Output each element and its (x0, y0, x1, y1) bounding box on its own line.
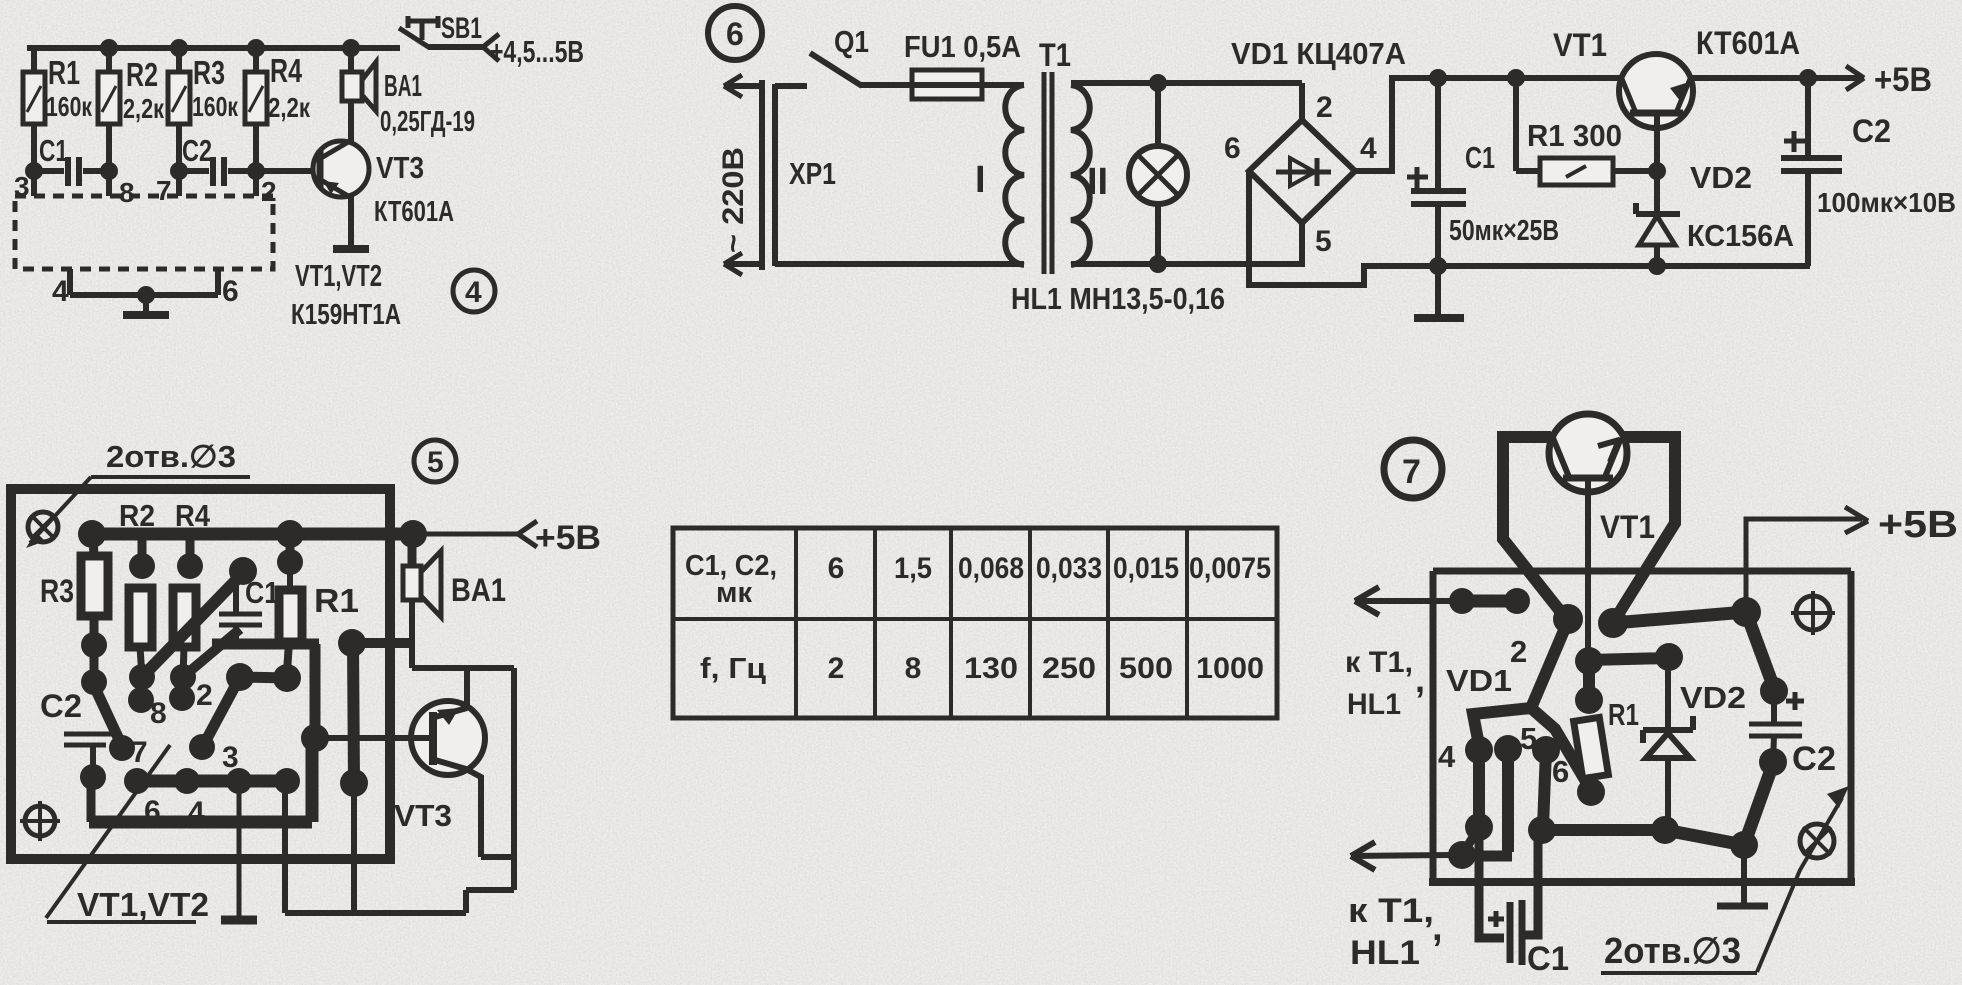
svg-text:+5В: +5В (535, 519, 601, 557)
svg-text:,: , (1415, 659, 1425, 700)
wire R1 branch drop (1507, 69, 1525, 171)
wire secondary top rail (1071, 80, 1302, 86)
resistor R3 outline (40, 534, 108, 616)
wire VT3 collector to speaker (348, 99, 354, 143)
svg-text:~ 220В: ~ 220В (717, 147, 750, 253)
trace VD1 Y (1473, 621, 1591, 790)
svg-text:4: 4 (465, 276, 482, 309)
svg-text:7: 7 (1402, 453, 1421, 491)
svg-text:VD2: VD2 (1680, 680, 1746, 715)
trace pad4 down (1448, 750, 1493, 869)
wire emitter bottom link (481, 854, 514, 860)
svg-text:6: 6 (1552, 754, 1569, 789)
trace under C1 (212, 639, 319, 650)
pad R2 top (129, 534, 155, 579)
arrow +5V fig5 (413, 519, 601, 557)
resistor R4 (245, 46, 311, 124)
wire VT3 emitter down (348, 195, 354, 247)
svg-text:КС156А: КС156А (1687, 218, 1794, 253)
node junction to ground (137, 286, 155, 304)
label 2 holes d3 (26, 439, 250, 548)
label k T1 HL1 bottom (1348, 892, 1443, 972)
ground fig4 (123, 311, 169, 319)
svg-text:HL1: HL1 (1350, 934, 1420, 972)
capacitor C1 (34, 133, 109, 186)
svg-text:50мк×25В: 50мк×25В (1449, 215, 1559, 247)
trace C1 left hookup (1479, 827, 1504, 938)
node dots top rail (100, 39, 360, 57)
trace base to VD2 (1589, 643, 1683, 671)
wire SB1 to supply arrow (428, 44, 483, 50)
transistor VT3 (313, 141, 454, 228)
node 8 (100, 162, 135, 208)
resistor R1 outline (277, 534, 359, 642)
svg-text:f, Гц: f, Гц (700, 653, 766, 685)
wire VT1 case right (1614, 437, 1675, 621)
svg-text:к Т1,: к Т1, (1348, 892, 1434, 930)
svg-text:250: 250 (1042, 652, 1096, 685)
svg-text:VT1,VT2: VT1,VT2 (77, 886, 209, 923)
wire VT3 collector up (464, 668, 470, 710)
wire bridge pin2 up (1299, 83, 1305, 122)
wire VT3 emitter down (466, 769, 481, 857)
svg-text:4: 4 (52, 275, 69, 308)
svg-text:VD2: VD2 (1690, 160, 1752, 195)
svg-text:,: , (1432, 907, 1443, 949)
resistor R1 300 (1516, 118, 1650, 185)
table row 2 (700, 652, 1264, 685)
svg-text:C1: C1 (39, 133, 68, 168)
svg-text:К159НТ1А: К159НТ1А (291, 299, 401, 331)
wire R4 bottom lead (253, 124, 259, 196)
mounting hole top-left (28, 512, 58, 542)
svg-text:R1: R1 (48, 54, 80, 91)
wire BA1 to collector top (412, 665, 514, 671)
trace bottom row (124, 768, 300, 829)
svg-text:BA1: BA1 (451, 572, 506, 608)
svg-text:R4: R4 (175, 498, 211, 533)
svg-text:2: 2 (1316, 91, 1333, 124)
svg-text:7: 7 (156, 175, 172, 206)
ground fig6 (1414, 266, 1464, 318)
svg-text:II: II (1087, 161, 1108, 203)
svg-text:5: 5 (427, 446, 444, 479)
mounting hole bottom-right (1800, 824, 1834, 858)
svg-text:КТ601А: КТ601А (1696, 25, 1800, 61)
node 3 (14, 162, 43, 202)
svg-text:R2: R2 (119, 498, 155, 533)
wire VT1 base lead (1585, 478, 1591, 655)
wire bridge pin4 to top rail (1353, 78, 1622, 171)
trace R1 bottom link (226, 642, 301, 692)
svg-text:0,015: 0,015 (1113, 552, 1179, 585)
wire bridge pin5 down (1299, 221, 1305, 267)
switch Q1 (810, 24, 869, 86)
node supply input arrow +4,5...5B (483, 34, 584, 69)
svg-text:КТ601А: КТ601А (374, 196, 454, 228)
arrow output top-left (1355, 587, 1462, 615)
svg-text:FU1 0,5A: FU1 0,5A (904, 29, 1021, 64)
wire outer loop bottom (285, 910, 466, 916)
svg-text:160к: 160к (46, 91, 93, 122)
transformer T1 (975, 37, 1108, 274)
svg-text:0,068: 0,068 (958, 552, 1024, 585)
svg-text:8: 8 (119, 177, 135, 208)
pin 4 lead (52, 269, 70, 308)
resistor R2 (98, 46, 165, 124)
svg-text:С2: С2 (1792, 740, 1836, 778)
figure number 7 (1384, 440, 1442, 498)
svg-text:VD1 КЦ407А: VD1 КЦ407А (1231, 36, 1406, 71)
mounting hole top-right (1791, 591, 1835, 635)
svg-text:2: 2 (828, 652, 845, 685)
wire pins 4-6 join (70, 292, 218, 298)
table row 1 (685, 550, 1271, 609)
zener VD2 KS156A (1636, 160, 1794, 266)
resistor R3 (168, 46, 239, 124)
plug XP1 (762, 80, 836, 270)
ground fig7 (1717, 845, 1768, 906)
wire R2 bottom lead (106, 124, 112, 196)
svg-text:6: 6 (828, 552, 845, 585)
pad chain node 2 (169, 647, 213, 712)
capacitor C1 fig7 (1488, 900, 1569, 978)
svg-text:2отв.∅3: 2отв.∅3 (1604, 930, 1741, 971)
wire VT3 base (317, 735, 433, 741)
node 2 (247, 162, 277, 207)
svg-text:T1: T1 (1039, 37, 1071, 73)
wire XP1 to switch (775, 83, 807, 89)
svg-text:R1 300: R1 300 (1527, 118, 1622, 153)
svg-text:6: 6 (222, 275, 239, 308)
FIG6 (708, 6, 1956, 318)
label VT1,VT2 with leader (46, 745, 209, 923)
figure number 5 (414, 440, 456, 482)
arrow mains top (724, 75, 762, 97)
svg-text:C2: C2 (182, 133, 212, 168)
pads on top rail (78, 520, 427, 548)
arrow +5V output (1846, 61, 1932, 99)
pads below R3 (81, 616, 107, 695)
capacitor C2 (40, 688, 114, 790)
svg-text:+5В: +5В (1874, 61, 1932, 99)
wire +5V fig7 (1746, 504, 1958, 612)
trace diagonal D4 node 3 (189, 677, 240, 774)
svg-text:7: 7 (131, 736, 148, 769)
svg-text:4: 4 (1360, 132, 1377, 165)
svg-text:С2: С2 (40, 688, 82, 724)
FIG7 (1345, 414, 1958, 978)
trace corner down to base pad (310, 644, 321, 740)
trace pad6 down (1543, 750, 1546, 827)
diode VD2 fig7 (1643, 657, 1746, 822)
svg-text:2: 2 (261, 176, 277, 207)
svg-text:2: 2 (1510, 634, 1527, 669)
pad 4 (1438, 736, 1493, 774)
wire top rail right of VT1 (1690, 75, 1864, 81)
svg-text:8: 8 (150, 697, 167, 730)
resistor R2 outline (129, 588, 152, 647)
trace pad5 to hub (1462, 749, 1512, 856)
svg-text:2отв.∅3: 2отв.∅3 (106, 439, 236, 474)
wire top supply rail (27, 45, 400, 51)
trace diagonal D2 node 7 (96, 690, 148, 769)
svg-text:1000: 1000 (1196, 652, 1264, 685)
resistor R1 fig7 (1574, 647, 1639, 806)
svg-text:R1: R1 (1608, 697, 1639, 732)
svg-text:100мк×10В: 100мк×10В (1817, 187, 1956, 218)
svg-text:R1: R1 (314, 582, 359, 619)
wire mid link (466, 887, 514, 893)
transistor VT1 KT601A (1553, 25, 1800, 171)
ground VT3 emitter (333, 245, 369, 253)
capacitor C2 100mk (1781, 69, 1956, 266)
label k T1 HL1 top (1345, 646, 1425, 721)
wire bridge pin6 to minus rail (1249, 170, 1810, 285)
trace emitter to C2 (1613, 597, 1788, 705)
svg-text:2,2к: 2,2к (123, 93, 165, 124)
trace BA1 return down (340, 643, 368, 797)
svg-text:R3: R3 (193, 54, 225, 91)
trace diagonal D1b (183, 629, 240, 677)
wire VT1 case left (1503, 437, 1564, 616)
svg-text:С2: С2 (1852, 113, 1891, 149)
trace top-left jumper (1449, 588, 1530, 614)
label 2 holes d3 fig7 (1601, 786, 1849, 973)
svg-text:5: 5 (1315, 225, 1332, 258)
svg-text:I: I (975, 159, 986, 201)
svg-text:4: 4 (1438, 739, 1456, 774)
node C1 bottom (1429, 257, 1447, 275)
wire R1 bottom lead (31, 124, 37, 196)
pad collector (1553, 604, 1583, 634)
wire to ground (143, 295, 149, 313)
svg-text:VT3: VT3 (376, 150, 424, 185)
wire node2 to VT3 base (256, 168, 318, 174)
arrow mains bottom (724, 253, 762, 275)
bridge rectifier VD1 (1224, 36, 1406, 258)
svg-text:+5В: +5В (1878, 504, 1958, 546)
svg-text:VT1: VT1 (1600, 509, 1655, 545)
pad emitter side (1598, 608, 1628, 638)
lamp HL1 (1011, 74, 1225, 316)
capacitor C2 fig7 (1749, 691, 1836, 778)
svg-text:130: 130 (964, 652, 1018, 685)
figure number 6 (708, 6, 762, 60)
svg-text:2: 2 (196, 679, 213, 712)
svg-text:+4,5...5В: +4,5...5В (490, 34, 584, 69)
speaker BA1 (342, 48, 475, 138)
switch SB1 (399, 12, 482, 48)
figure number 4 (453, 270, 495, 312)
wire switch to fuse (860, 82, 1024, 88)
wire outer loop left (282, 781, 288, 913)
capacitor C1 (219, 575, 279, 648)
resistor R4 outline (173, 588, 196, 647)
trace lower horizontal (89, 724, 329, 822)
capacitor C1 50mk (1407, 69, 1559, 266)
wire outer loop right (511, 668, 517, 890)
trace C1 right hookup (1525, 830, 1538, 935)
ground fig5 (221, 781, 257, 920)
FIG5 (11, 439, 601, 923)
node 7 (156, 162, 188, 206)
pad 6 (1532, 736, 1569, 789)
trace +5V top rail (92, 528, 413, 541)
node VD2 top (1648, 162, 1666, 180)
mounting hole bottom-left (20, 801, 60, 841)
svg-text:500: 500 (1119, 652, 1173, 685)
svg-text:6: 6 (1224, 132, 1241, 165)
svg-text:2,2к: 2,2к (268, 92, 311, 123)
svg-text:мк: мк (716, 577, 752, 609)
resistor R1 (23, 54, 93, 124)
transistor VT1 (1549, 414, 1655, 545)
pad BA1 return (338, 629, 366, 657)
svg-text:0,0075: 0,0075 (1189, 552, 1271, 585)
trace BA1 return horizontal (352, 638, 412, 648)
svg-text:6: 6 (726, 16, 744, 52)
FIG4 (14, 12, 584, 331)
svg-text:VD1: VD1 (1446, 663, 1512, 698)
svg-text:С1: С1 (1465, 140, 1495, 175)
trace bottom bus (1528, 764, 1773, 859)
pad chain node 8 (128, 647, 167, 730)
trace diagonal D1 to C1 top (142, 557, 257, 677)
svg-text:к Т1,: к Т1, (1345, 646, 1413, 679)
svg-text:R3: R3 (40, 573, 74, 609)
svg-text:BA1: BA1 (384, 68, 422, 103)
wire left drop to R1 (31, 46, 37, 74)
svg-text:HL1: HL1 (1347, 688, 1401, 721)
svg-text:0,25ГД-19: 0,25ГД-19 (380, 106, 475, 138)
svg-text:Q1: Q1 (834, 24, 869, 59)
arrow output bottom-left (1351, 842, 1451, 870)
svg-text:160к: 160к (192, 91, 239, 122)
wire outer loop step (463, 890, 469, 913)
TABLE (673, 528, 1277, 718)
pad 5 (1494, 721, 1537, 763)
PCB board outline (11, 489, 390, 859)
speaker BA1 pcb (403, 534, 506, 668)
svg-text:VT1,VT2: VT1,VT2 (295, 258, 382, 293)
capacitor C2 (179, 133, 256, 186)
transistor VT3 (394, 701, 485, 833)
node VD2 bottom (1648, 257, 1666, 275)
svg-text:R4: R4 (270, 52, 302, 89)
wire primary bottom to XP1 (775, 261, 1024, 267)
IC VT1,VT2 dashed outline K159NT1A (15, 196, 401, 331)
wire secondary bottom rail (1071, 261, 1303, 267)
svg-text:VT3: VT3 (394, 798, 452, 833)
svg-text:0,033: 0,033 (1036, 552, 1102, 585)
pin 6 lead (218, 269, 239, 308)
wire BA1 return thin (351, 783, 357, 913)
wire R3 bottom lead (176, 124, 182, 196)
table frame (673, 528, 1277, 718)
svg-text:8: 8 (905, 652, 922, 685)
svg-text:HL1 МН13,5-0,16: HL1 МН13,5-0,16 (1011, 281, 1225, 316)
svg-text:С1: С1 (1527, 940, 1569, 978)
PCB board outline fig7 (1429, 571, 1855, 882)
pad R4 top (177, 534, 203, 579)
svg-text:VT1: VT1 (1553, 27, 1607, 63)
fuse FU1 0,5A (904, 29, 1021, 99)
svg-text:XP1: XP1 (789, 156, 836, 191)
svg-text:R2: R2 (126, 56, 158, 93)
svg-text:1,5: 1,5 (894, 552, 932, 585)
svg-text:SB1: SB1 (441, 12, 482, 45)
